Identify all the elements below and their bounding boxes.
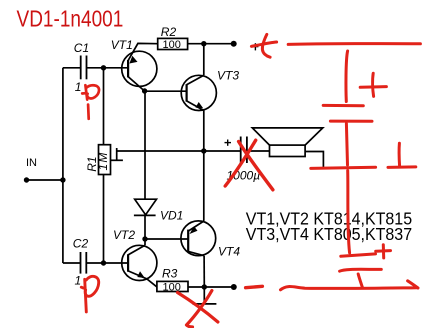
wire node B to VT2 base — [104, 262, 129, 264]
red battery upper lead — [346, 51, 348, 102]
svg-text:IN: IN — [26, 157, 37, 169]
capacitor C1 — [81, 56, 87, 80]
svg-text:100: 100 — [163, 39, 181, 51]
red ground symbol — [398, 143, 402, 166]
speaker — [252, 128, 322, 157]
red battery bar 1 — [323, 104, 363, 107]
node plus terminal — [231, 41, 237, 47]
diode VD1 — [134, 199, 157, 215]
red minus dash at bottom terminal — [246, 286, 263, 287]
resistor R1 — [99, 145, 111, 175]
wire R1 stub tick to output line — [116, 148, 118, 160]
transistor VT1 (PNP) — [122, 43, 158, 91]
resistor R3 — [157, 281, 188, 291]
svg-text:1: 1 — [75, 274, 82, 288]
wire node C to VT3 collector — [203, 44, 205, 76]
wire input bus to C2 — [63, 262, 81, 264]
svg-text:VT3,VT4 KT805,KT837: VT3,VT4 KT805,KT837 — [246, 224, 412, 244]
red plus lower battery — [376, 249, 391, 253]
svg-text:R3: R3 — [162, 266, 178, 280]
wire R2 to node C — [188, 43, 204, 45]
wire input vertical bus — [62, 68, 64, 263]
svg-text:VD1-1n4001: VD1-1n4001 — [17, 6, 124, 32]
wire IN to input bus — [27, 179, 63, 181]
wire C1 to node A — [87, 67, 104, 69]
transistor VT4 (PNP) — [181, 221, 216, 256]
wire VT3 emitter to output node — [203, 111, 205, 152]
wire VD1 to node E — [144, 215, 146, 239]
wire node D to VT3 base — [145, 90, 187, 92]
svg-text:R2: R2 — [161, 25, 177, 39]
red annotation p near C1 — [82, 85, 99, 119]
svg-text:C1: C1 — [74, 41, 89, 55]
red center tap bar — [311, 167, 376, 168]
node input bus junction — [60, 177, 65, 182]
wire node E to VT2 collector — [144, 239, 146, 245]
svg-text:VT2: VT2 — [113, 228, 135, 242]
red bottom supply line — [281, 287, 418, 290]
transistor VT3 (NPN) — [181, 75, 216, 110]
svg-text:VT1: VT1 — [111, 38, 133, 52]
wire cap to speaker — [247, 150, 270, 152]
wire node E to VT4 base — [145, 238, 188, 240]
red X over 1000u cap — [225, 140, 273, 190]
red plus upper battery — [360, 85, 386, 89]
node D (VT1 collector) — [142, 88, 147, 93]
red battery mid lead — [346, 124, 347, 166]
ground stub below node F — [193, 287, 217, 304]
wire R3 to node F — [188, 286, 204, 288]
wire node A to VT1 base — [104, 67, 129, 69]
node F (bottom rail junction) — [202, 284, 207, 289]
red annotation p near C2 — [81, 276, 98, 312]
node E (VT2 collector) — [142, 236, 147, 241]
red annotation plus at top terminal — [251, 42, 276, 46]
transistor VT2 (NPN) — [122, 245, 157, 287]
svg-text:C2: C2 — [73, 237, 89, 251]
red battery bar 2 — [330, 120, 372, 123]
node minus terminal — [231, 284, 237, 290]
wire node A down to R1 — [103, 68, 105, 145]
plus polarity mark — [252, 43, 258, 50]
red battery bar 4 — [340, 269, 382, 271]
wire R1 right stub — [111, 159, 123, 161]
red battery lower lead — [348, 171, 350, 254]
wire VT4 to bottom junction — [203, 256, 205, 287]
red battery bottom lead — [358, 274, 362, 288]
red battery bar 3 — [341, 254, 376, 256]
node C (top rail junction) — [201, 41, 206, 46]
wire to C1 left plate — [63, 67, 81, 69]
red X at bottom terminal — [178, 291, 218, 328]
red top supply line — [288, 42, 420, 46]
svg-text:VT3: VT3 — [217, 69, 239, 83]
wire R1 to node B — [103, 175, 105, 264]
node A (C1/R1/VT1 base) — [101, 65, 106, 70]
wire speaker right terminal — [305, 152, 323, 168]
wire node B to C2 — [86, 262, 103, 264]
node B (C2/R1/VT2 base) — [101, 260, 106, 265]
node output junction — [201, 148, 206, 153]
svg-text:VD1: VD1 — [160, 209, 183, 223]
svg-text:VT4: VT4 — [218, 245, 240, 259]
capacitor 1000u plus mark — [225, 140, 232, 146]
wire node C to plus terminal — [204, 43, 234, 45]
resistor R2 — [158, 38, 188, 49]
wire output line to coupling cap — [117, 150, 241, 152]
wire node D down to VD1 — [144, 91, 146, 199]
wire output node to VT4 — [203, 151, 205, 221]
capacitor C2 — [81, 252, 87, 274]
capacitor C 1000u — [241, 137, 247, 164]
svg-text:1M: 1M — [96, 151, 110, 170]
svg-text:1: 1 — [75, 80, 82, 94]
wire node F to minus terminal — [204, 286, 234, 288]
node IN terminal — [24, 177, 29, 182]
